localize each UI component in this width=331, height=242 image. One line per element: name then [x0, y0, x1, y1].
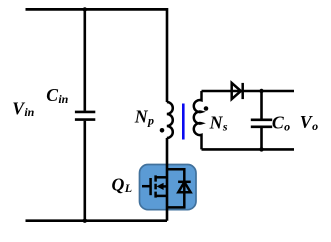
junction dot: Co top: [259, 89, 263, 93]
junction dot: Co bottom: [259, 147, 263, 151]
svg-text:Ns: Ns: [209, 113, 228, 134]
svg-text:Vin: Vin: [12, 98, 34, 119]
wire: secondary bottom rail: [202, 148, 295, 151]
wire: secondary top rail: [202, 90, 295, 93]
diode D (output rectifier): [232, 83, 243, 99]
junction dot: Cin bottom: [83, 219, 87, 223]
svg-text:Np: Np: [134, 107, 154, 128]
capacitor Co: [251, 91, 272, 149]
arrowhead of QL body terminal: [157, 183, 164, 190]
capacitor C_in: [75, 9, 95, 220]
wire: input bottom rail: [26, 219, 168, 222]
wire: primary vertical (drain branch): [166, 8, 169, 221]
highlight box for QL: [140, 165, 197, 210]
inductor Np (primary winding): [167, 102, 173, 138]
svg-text:Co: Co: [272, 113, 290, 134]
polarity dot Np: [160, 128, 165, 133]
polarity dot Ns: [204, 106, 209, 111]
svg-text:Cin: Cin: [46, 85, 68, 106]
junction dot: Cin top: [83, 7, 87, 11]
inductor Ns (secondary winding): [194, 91, 202, 149]
transformer core bar: [182, 104, 185, 140]
wire: input top rail: [26, 8, 168, 11]
svg-text:Vo: Vo: [300, 112, 318, 133]
svg-text:QL: QL: [112, 175, 133, 195]
transistor QL (MOSFET with body diode): [142, 169, 191, 207]
